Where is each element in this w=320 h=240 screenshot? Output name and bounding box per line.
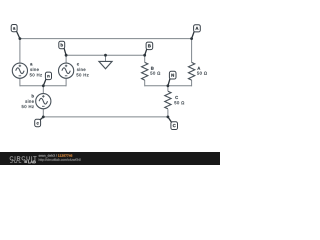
watermark bar <box>0 152 220 165</box>
junction at node C <box>167 116 170 119</box>
junction at node c <box>42 116 45 119</box>
label Vc: c / sine / 50 Hz <box>76 63 88 76</box>
wire node B junction down to resistor B top <box>144 55 146 63</box>
label Va: a / sine / 50 Hz <box>30 63 42 76</box>
label RB: B / 50 ohm <box>150 67 160 75</box>
junction at node b <box>65 54 68 57</box>
wire node A junction down to resistor A top <box>191 38 193 62</box>
watermark logo LAB <box>28 161 36 164</box>
node n flag diagonal <box>43 79 46 86</box>
node B label box <box>146 42 153 50</box>
watermark logo block <box>24 160 27 163</box>
label RA: A / 50 ohm <box>197 67 207 75</box>
node B flag diagonal <box>145 49 147 55</box>
wire resistor C bottom to bottom rail <box>167 109 169 117</box>
ground symbol <box>99 61 112 68</box>
wire mid-left horizontal rail <box>20 85 66 87</box>
wire resistor B bottom to mid rail <box>144 80 146 86</box>
watermark text line 1 username <box>39 154 57 157</box>
node n label box <box>45 72 51 80</box>
node b flag diagonal <box>64 48 66 55</box>
voltage source Va (sine 50 Hz) <box>12 63 27 78</box>
junction at node B <box>143 54 146 57</box>
resistor RA 50 ohm <box>188 62 194 80</box>
wire top horizontal rail a to A <box>20 38 192 40</box>
node C flag diagonal <box>168 117 172 123</box>
wire n junction down to source b top <box>42 85 44 94</box>
node C label box <box>171 122 178 130</box>
resistor RB 50 ohm <box>142 62 148 80</box>
label RC: C / 50 ohm <box>174 96 184 104</box>
junction at ground <box>104 54 107 57</box>
watermark logo squarewave <box>10 161 21 163</box>
resistor RC 50 ohm <box>165 91 171 109</box>
wire node a down to source a top <box>19 38 21 63</box>
watermark text line 1 circuit id <box>58 154 72 156</box>
junction at node N <box>167 84 170 87</box>
node a label box <box>11 25 17 32</box>
node A flag diagonal <box>192 31 195 38</box>
wire source b bottom to bottom rail <box>42 108 44 117</box>
junction at node n <box>42 84 45 87</box>
node c flag diagonal <box>40 117 43 120</box>
wire N junction down to resistor C top <box>167 85 169 91</box>
junction at node A <box>190 37 193 40</box>
node a flag diagonal <box>16 31 20 39</box>
watermark text line 2 url <box>39 158 81 161</box>
wire source c bottom to mid rail <box>65 78 67 86</box>
wire second horizontal rail b to B <box>66 54 145 56</box>
wire mid-right horizontal rail <box>145 85 192 87</box>
node b label box <box>59 41 65 49</box>
wire ground stub <box>105 55 107 61</box>
label Vb: b / sine / 50 Hz <box>22 94 34 108</box>
wire resistor A bottom to mid rail <box>191 80 193 86</box>
watermark logo CIRCUIT <box>10 156 37 160</box>
wire source a bottom to mid rail <box>19 78 21 86</box>
node c label box <box>35 119 41 126</box>
voltage source Vb (sine 50 Hz) <box>36 94 51 109</box>
wire b junction down to source c top <box>65 55 67 64</box>
node N label box <box>169 71 176 79</box>
node N flag diagonal <box>168 78 170 86</box>
junction at node a <box>19 37 22 40</box>
voltage source Vc (sine 50 Hz) <box>59 63 74 78</box>
node A label box <box>194 25 201 32</box>
wire bottom horizontal rail <box>43 116 168 118</box>
